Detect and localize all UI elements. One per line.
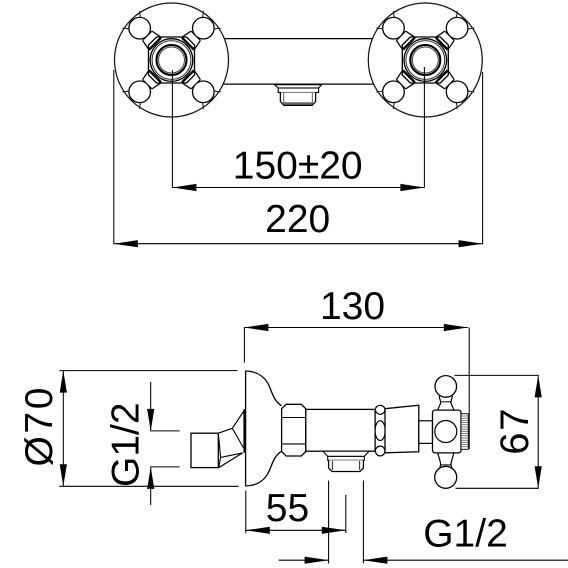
lobe -45 bbox=[122, 11, 165, 54]
lobe 225 bbox=[122, 66, 165, 109]
G1/2 upper arrow bbox=[147, 409, 154, 431]
arrow 220 left bbox=[114, 240, 138, 247]
outlet end cap side sliver bbox=[218, 433, 220, 467]
handle base octagon bbox=[149, 37, 195, 83]
dim line Ø70 bbox=[62, 371, 64, 487]
ext line 67 top bbox=[455, 374, 539, 376]
outlet square end cap bbox=[191, 433, 218, 467]
arrow 150 left bbox=[172, 184, 196, 191]
outlet cone inner lower edge bbox=[221, 453, 243, 458]
dim line 150±20 bbox=[172, 187, 424, 189]
hex nut side view bbox=[282, 404, 306, 456]
svg-text:Ø70: Ø70 bbox=[18, 385, 61, 467]
bottom outlet flange band bbox=[328, 456, 365, 460]
center spout nipple bbox=[280, 93, 315, 106]
arrow 150 right bbox=[400, 184, 424, 191]
handle cone skirt bbox=[385, 405, 419, 453]
lobe 225 bbox=[376, 66, 419, 109]
svg-text:150±20: 150±20 bbox=[233, 145, 363, 188]
lobe 45 bbox=[177, 11, 220, 54]
leader line left handle centre bbox=[171, 70, 173, 188]
outlet cone inner upper edge bbox=[232, 428, 243, 448]
base diagonal thick edges bbox=[149, 38, 194, 83]
body bar top edge bbox=[224, 38, 372, 40]
bottom ball sphere bbox=[435, 466, 457, 488]
leader line right handle centre bbox=[423, 67, 425, 188]
dim line 130 bbox=[244, 327, 467, 329]
flange bell bottom profile bbox=[246, 451, 282, 486]
arrow Ø70 bottom bbox=[60, 464, 67, 486]
ext line 130 left bbox=[243, 328, 245, 363]
dim line 220 bbox=[114, 243, 483, 245]
G1/2 lower arrow bbox=[147, 467, 154, 489]
G1/2 bottom dim left segment bbox=[279, 559, 329, 561]
arrow 130 left bbox=[244, 324, 268, 331]
bottom outlet nipple bbox=[329, 460, 364, 471]
bottom ball neck bbox=[438, 453, 454, 472]
spout nipple inner right line bbox=[311, 93, 313, 104]
top ball collar line bbox=[440, 401, 451, 403]
extension line 220 right bbox=[482, 72, 484, 244]
bonnet ring middle bbox=[375, 421, 385, 441]
ext line 55 right (outlet centre) bbox=[345, 495, 347, 533]
spout nipple inner bottom shade bbox=[283, 102, 313, 104]
G1/2 bottom left arrow bbox=[305, 557, 329, 564]
dim line 55 bbox=[246, 529, 346, 531]
center spout flange trapezoid bbox=[275, 85, 322, 88]
ext line 130 right bbox=[468, 328, 470, 450]
handle neck rect bbox=[419, 421, 433, 444]
handle hub block bbox=[433, 410, 462, 453]
G1/2 upper dim segment bbox=[150, 382, 152, 431]
ext line 55 left (wall) bbox=[245, 491, 247, 534]
bottom nipple inner right line bbox=[359, 461, 361, 470]
handle base octagon bbox=[402, 37, 448, 83]
wall flange back edge bbox=[245, 371, 247, 486]
ring bore bbox=[157, 45, 187, 75]
ring inner bbox=[412, 47, 438, 73]
G1/2 ext line upper bbox=[150, 430, 179, 432]
bottom ball collar line bbox=[440, 464, 451, 466]
spout nipple inner left line bbox=[283, 93, 285, 104]
arrow 55 left bbox=[246, 527, 270, 534]
hex facet line lower bbox=[282, 443, 306, 445]
body bar bottom edge bbox=[223, 83, 373, 85]
G1/2 lower dim segment bbox=[150, 467, 152, 505]
arrow 220 right bbox=[459, 240, 483, 247]
escutcheon outer circle bbox=[115, 3, 229, 117]
ring bore bbox=[410, 45, 440, 75]
escutcheon outer circle bbox=[368, 3, 482, 117]
lobe -45 bbox=[376, 11, 419, 54]
svg-text:55: 55 bbox=[266, 487, 309, 530]
ext line 67 bottom bbox=[456, 487, 539, 489]
right handle assembly bbox=[368, 3, 482, 117]
cone base thick edge at wall bbox=[243, 409, 245, 453]
G1/2 ext line lower bbox=[150, 466, 179, 468]
svg-text:130: 130 bbox=[320, 285, 385, 328]
lobe 135 bbox=[177, 66, 220, 109]
ext line Ø70 top bbox=[59, 370, 237, 372]
bottom outlet flange trapezoid bbox=[323, 451, 369, 456]
bonnet ring top bbox=[375, 405, 385, 414]
center spout flange band bbox=[278, 88, 318, 93]
knurl hatch bbox=[461, 416, 468, 447]
top ball neck bbox=[438, 395, 454, 411]
arrow 55 right bbox=[322, 527, 346, 534]
ring 2 bbox=[406, 41, 445, 80]
arrow 67 top bbox=[535, 375, 542, 397]
svg-text:67: 67 bbox=[493, 407, 537, 455]
dim line 67 bbox=[537, 375, 539, 488]
ring 2 bbox=[152, 41, 191, 80]
svg-text:220: 220 bbox=[265, 198, 330, 241]
base diagonal thick edges bbox=[403, 38, 448, 83]
knurled ring bbox=[461, 414, 468, 450]
arrow 67 bottom bbox=[535, 466, 542, 488]
ring inner bbox=[159, 47, 185, 73]
outlet cone bottom edge bbox=[219, 453, 243, 468]
G1/2 bottom ext line right bbox=[362, 481, 364, 564]
G1/2 bottom dim right segment bbox=[363, 559, 568, 561]
arrow Ø70 top bbox=[60, 371, 67, 393]
G1/2 bottom ext line left bbox=[328, 481, 330, 564]
ext line Ø70 bottom bbox=[59, 485, 238, 487]
flange bell top profile bbox=[246, 371, 282, 406]
bottom nipple inner left line bbox=[331, 461, 333, 470]
ring outer bbox=[404, 39, 447, 82]
hub centre circle bbox=[435, 421, 457, 443]
left handle assembly bbox=[115, 3, 229, 117]
lobe 45 bbox=[431, 11, 474, 54]
valve body cylinder bbox=[306, 409, 375, 451]
ring outer bbox=[150, 39, 193, 82]
extension line 220 left bbox=[113, 70, 115, 244]
lobe 135 bbox=[431, 66, 474, 109]
arrow 130 right bbox=[444, 324, 468, 331]
bonnet ring bottom bbox=[375, 446, 385, 456]
top ball sphere bbox=[435, 376, 457, 398]
hex facet line upper bbox=[282, 417, 306, 419]
svg-text:G1/2: G1/2 bbox=[423, 513, 508, 556]
outlet cone top edge bbox=[218, 409, 245, 433]
G1/2 bottom right arrow bbox=[363, 557, 387, 564]
svg-text:G1/2: G1/2 bbox=[105, 402, 148, 487]
